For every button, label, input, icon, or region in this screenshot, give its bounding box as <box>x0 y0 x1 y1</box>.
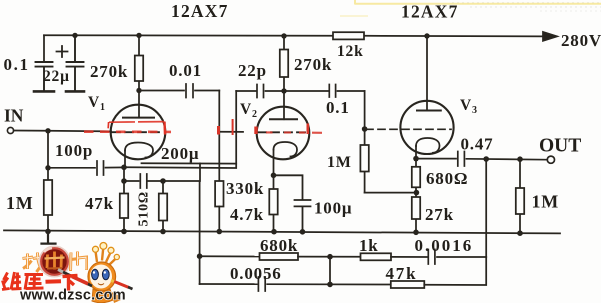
V2 plate lead <box>283 91 285 119</box>
V3 cathode <box>416 138 440 153</box>
svg-text:1M: 1M <box>327 154 352 171</box>
capacitor 0.01 (coupling V1-V2) <box>139 84 219 98</box>
resistor 1k <box>361 253 392 260</box>
resistor 1M (V3 grid) <box>364 129 366 193</box>
node 1M out top <box>517 156 523 162</box>
wire feedback tap <box>163 181 200 256</box>
red annotation V2 grid <box>219 119 323 135</box>
capacitor 0.47 (output) <box>416 152 547 167</box>
svg-text:OUT: OUT <box>539 136 581 157</box>
capacitor 100u (cathode bypass) <box>274 175 311 232</box>
node V3 cathode <box>413 156 419 162</box>
resistor 47k (feedback) <box>391 281 425 288</box>
svg-text:22μ: 22μ <box>43 68 70 85</box>
node V2 plate <box>281 88 286 93</box>
V3 plate bar <box>417 110 441 112</box>
node fb mid top <box>327 254 333 260</box>
resistor 47k (V1 cathode) <box>123 181 125 231</box>
node V1 cathode <box>121 165 127 171</box>
capacitor 100p <box>48 161 124 175</box>
node 100p left <box>45 165 50 170</box>
capacitor 0.1 (supply bypass) <box>36 62 53 91</box>
node input <box>45 128 50 133</box>
wire fb row2 right <box>424 257 486 285</box>
node fb takeoff <box>483 156 489 162</box>
node 200u left <box>121 178 127 184</box>
resistor 4.7k <box>273 175 275 231</box>
triode V1 envelope <box>111 105 166 160</box>
capacitor 22u electrolytic <box>67 35 84 90</box>
wire fb row2 left <box>200 283 257 285</box>
svg-text:27k: 27k <box>425 205 454 224</box>
wire V2 grid <box>219 131 243 133</box>
resistor 680ohm <box>415 159 417 193</box>
V1 plate bar <box>123 117 154 119</box>
red marker pen (left) <box>61 271 92 286</box>
node ground 4.7k <box>271 229 277 235</box>
capacitor 0.0016 <box>391 250 486 265</box>
ground bar (22u cap) <box>66 90 84 93</box>
V1 cathode lead <box>124 151 126 168</box>
svg-text:22p: 22p <box>238 61 267 80</box>
svg-text:280V: 280V <box>561 31 601 50</box>
V2 cathode <box>274 142 298 157</box>
svg-text:1k: 1k <box>359 236 379 255</box>
wire input drop <box>47 131 49 168</box>
node V2 cathode <box>271 173 277 179</box>
svg-text:0.0056: 0.0056 <box>230 264 282 283</box>
node V3 grid <box>362 126 368 132</box>
svg-text:0.1: 0.1 <box>326 98 350 117</box>
svg-text:270k: 270k <box>90 62 128 81</box>
svg-text:0.1: 0.1 <box>4 55 30 74</box>
node ground 47k <box>121 229 127 235</box>
capacitor 200u <box>124 174 163 188</box>
node 680/27k <box>414 190 420 196</box>
char ku <box>25 275 44 290</box>
watermark logo dzsc <box>23 243 133 303</box>
wire fb vertical <box>485 159 487 257</box>
wire upper parallel run <box>142 162 237 164</box>
resistor 330k (V2 grid leak) <box>215 181 223 207</box>
char zhao (find) orange outlined <box>23 253 44 273</box>
char yi <box>46 279 62 284</box>
resistor 1M (input) <box>47 168 49 232</box>
char wei <box>2 273 10 290</box>
wire input <box>14 130 111 133</box>
plus sign 22u <box>57 46 68 57</box>
svg-text:100μ: 100μ <box>314 199 352 218</box>
capacitor 22p (feedback) <box>236 85 284 98</box>
yellow highlighter marks <box>340 0 601 16</box>
svg-text:330k: 330k <box>226 179 264 198</box>
node fb mid bottom <box>327 282 333 288</box>
svg-text:680Ω: 680Ω <box>426 169 468 188</box>
V2 grid (dashed) <box>258 131 308 133</box>
svg-text:0.0016: 0.0016 <box>415 236 474 255</box>
svg-text:1M: 1M <box>6 193 34 213</box>
wire cathode drop <box>123 167 125 181</box>
wire fb row1 left <box>200 255 260 257</box>
svg-text:47k: 47k <box>85 194 114 213</box>
svg-text:4.7k: 4.7k <box>230 205 264 224</box>
wire V3 plate <box>426 36 428 111</box>
magnified chip char strokes <box>45 252 65 270</box>
node ground 510 <box>160 229 166 235</box>
resistor 12k (in rail) <box>333 32 364 39</box>
svg-text:47k: 47k <box>386 264 418 283</box>
node top rail / 270k V2 <box>281 33 286 38</box>
node ground 27k <box>413 230 419 236</box>
red annotation V1 grid <box>84 122 171 135</box>
V2 plate bar <box>270 118 297 120</box>
svg-text:1M: 1M <box>532 192 560 212</box>
svg-text:100p: 100p <box>55 141 93 160</box>
wire B+ top rail <box>44 35 543 36</box>
char pian orange outlined <box>71 252 87 272</box>
V3 grid lead (dashed) <box>366 128 451 130</box>
svg-text:12k: 12k <box>337 43 364 60</box>
node top rail / 270k V1 <box>136 33 141 38</box>
wire cathode to 22p <box>124 91 236 168</box>
svg-text:IN: IN <box>4 106 24 126</box>
V1 plate lead <box>138 91 140 118</box>
B+ arrow <box>543 32 557 41</box>
mascot mouth <box>98 284 104 285</box>
V2 cathode lead <box>273 150 275 176</box>
svg-text:510Ω: 510Ω <box>137 191 152 226</box>
svg-text:12AX7: 12AX7 <box>171 1 229 21</box>
capacitor 0.0056 <box>258 277 390 291</box>
node fb left <box>197 253 203 259</box>
mascot head <box>88 262 116 291</box>
wire jog from 510 node <box>199 163 201 181</box>
wire fb mid link <box>329 257 331 285</box>
capacitor 0.1 (coupling V2-V3) <box>284 85 365 98</box>
watermark text weiku yixia (red) <box>2 272 78 291</box>
V1 cathode <box>125 143 153 158</box>
node ground 100u <box>300 229 306 235</box>
wire 1M to cathode junction <box>365 192 417 194</box>
resistor 1M (output) <box>519 159 521 233</box>
ground symbol <box>42 231 56 243</box>
svg-text:0.01: 0.01 <box>169 61 202 80</box>
svg-text:200μ: 200μ <box>161 144 199 163</box>
resistor 510ohm <box>162 181 164 232</box>
node V1 plate <box>136 88 141 93</box>
ground bar (0.1 cap) <box>34 90 54 93</box>
node ground 1M out <box>517 230 523 236</box>
wire fb row1 mid <box>298 256 361 258</box>
mascot eyes <box>92 269 99 279</box>
resistor 270k (V2 plate load) <box>283 36 285 91</box>
OUT terminal <box>547 156 554 163</box>
V3 cathode lead <box>415 146 417 159</box>
mascot body <box>92 289 113 303</box>
svg-text:0.47: 0.47 <box>461 135 494 154</box>
node top rail / V3 plate <box>424 33 429 38</box>
resistor 270k (V1 plate load) <box>138 35 140 90</box>
svg-text:12AX7: 12AX7 <box>401 2 459 22</box>
node 510 top <box>160 178 166 184</box>
wire 0.1 drop <box>364 91 366 129</box>
triode V3 envelope <box>400 101 453 154</box>
wire fb left drop <box>199 256 201 284</box>
IN terminal <box>7 127 13 133</box>
node top rail / 22u <box>72 33 77 38</box>
resistor 27k <box>415 193 417 233</box>
node ground 1M <box>45 229 51 235</box>
svg-text:www.dzsc.com: www.dzsc.com <box>19 288 126 303</box>
node ground 330k <box>217 229 223 235</box>
wire 0.01 drop <box>218 91 220 182</box>
svg-text:680k: 680k <box>260 236 298 255</box>
char xia <box>63 276 78 291</box>
red pen (right) <box>113 281 129 288</box>
svg-text:270k: 270k <box>294 55 332 74</box>
V1 grid (dashed) <box>112 131 164 133</box>
ground rail <box>4 230 560 233</box>
wire rail left drop <box>43 35 45 61</box>
triode V2 envelope <box>257 107 310 160</box>
mascot antennae <box>96 249 116 266</box>
magnifier <box>41 248 68 275</box>
resistor 680k <box>260 253 299 260</box>
